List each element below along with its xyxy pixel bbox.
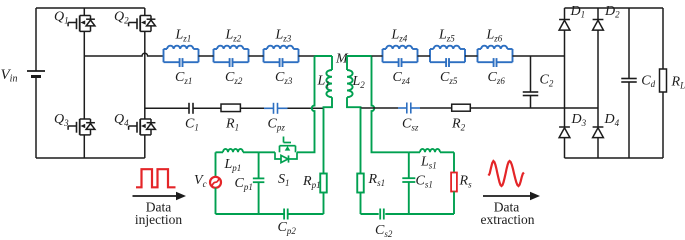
wire injection left vertical lower xyxy=(215,188,217,214)
label D3 xyxy=(571,112,587,128)
wire node C down to extraction with hop xyxy=(372,56,390,152)
wire inverter output A with hop over leg2 xyxy=(84,53,163,56)
label Cs1 xyxy=(416,174,433,190)
voltage source Vin (battery) xyxy=(27,8,45,158)
label Vc xyxy=(194,173,207,189)
diode D1 xyxy=(559,20,570,31)
label Cz5 xyxy=(440,70,458,86)
wire between tank1 tank2 xyxy=(199,55,214,57)
label R2 xyxy=(451,117,466,133)
wire between tank2 tank3 xyxy=(249,55,264,57)
transistor Q1 xyxy=(68,16,95,32)
wire injection bottom left xyxy=(216,213,285,215)
label Cz3 xyxy=(275,70,293,86)
capacitor Csz xyxy=(407,103,411,114)
label D2 xyxy=(604,4,620,20)
label Cpz xyxy=(268,117,286,133)
wire node C to tank4 xyxy=(372,55,383,57)
wire leg1 upper xyxy=(83,8,85,16)
wire leg2 upper xyxy=(144,8,146,16)
inductor Lp1 xyxy=(223,149,243,152)
capacitor Cpz xyxy=(274,103,278,114)
label C2 xyxy=(540,73,554,89)
label Lz6 xyxy=(486,27,503,43)
arrow data injection xyxy=(133,192,187,200)
wire rect leg1 upper xyxy=(564,8,566,20)
label C1 xyxy=(185,117,199,133)
LC tank L_z3 C_z3 xyxy=(264,46,299,67)
label Q3 xyxy=(54,112,69,128)
label Lz5 xyxy=(438,27,455,43)
label R1 xyxy=(225,117,239,133)
label Lz2 xyxy=(225,27,242,43)
label Lp1 xyxy=(224,157,242,173)
label Rp1 xyxy=(302,174,321,190)
wire extraction bottom right xyxy=(385,213,454,215)
svg-text:extraction: extraction xyxy=(481,212,535,227)
LC tank L_z6 C_z6 xyxy=(478,46,513,67)
label Q4 xyxy=(114,112,129,128)
label M xyxy=(335,52,349,67)
label Lz3 xyxy=(275,27,292,43)
wire injection top left xyxy=(216,151,224,153)
label RL xyxy=(671,75,685,91)
LC tank L_z2 C_z2 xyxy=(214,46,249,67)
wire leg2 to C1 xyxy=(145,107,189,109)
label Ls1 xyxy=(420,155,437,171)
wire blue lead right of Csz xyxy=(411,107,420,109)
wire between tank5 tank6 xyxy=(465,55,478,57)
wire injection left vertical upper xyxy=(215,152,217,177)
resistor R1 xyxy=(221,104,240,112)
wire Cp1 node to S1 xyxy=(259,151,275,153)
transistor Q4 xyxy=(129,119,156,135)
wire leg1 middle xyxy=(83,31,85,119)
wire Rp1 lower lead xyxy=(323,193,325,215)
source Vc xyxy=(210,177,221,188)
wire between tank4 tank5 xyxy=(418,55,431,57)
label S1 xyxy=(278,172,290,188)
label Lz4 xyxy=(391,27,408,43)
resistor Rs xyxy=(451,173,457,192)
wire rect leg1 lower xyxy=(564,138,566,158)
label Cd xyxy=(641,73,655,89)
wire rect leg2 upper xyxy=(597,8,599,20)
svg-text:injection: injection xyxy=(135,212,182,227)
wire leg2 middle xyxy=(144,31,146,119)
label Rs xyxy=(459,174,473,190)
text Data (injection) xyxy=(146,200,171,215)
label Lz1 xyxy=(175,27,192,43)
wire blue lead left of Cpz xyxy=(264,107,274,109)
inductor L2 xyxy=(347,56,353,102)
capacitor Cp1 xyxy=(253,152,265,214)
wire top rail left xyxy=(36,7,145,9)
label L2 xyxy=(352,74,366,90)
wire top rail right xyxy=(565,7,664,9)
capacitor Cs1 xyxy=(402,152,415,214)
label Rs1 xyxy=(368,172,386,188)
LC tank L_z4 C_z4 xyxy=(383,46,418,67)
wire Rs lower lead xyxy=(453,192,455,215)
transistor Q2 xyxy=(129,16,156,32)
wire L1 bottom to node B xyxy=(324,102,333,108)
label D4 xyxy=(604,112,620,128)
resistor R2 xyxy=(452,104,471,111)
diode D4 xyxy=(593,127,604,138)
diode D2 xyxy=(593,20,604,31)
inductor Ls1 xyxy=(420,149,440,152)
wire Cs1 node to Ls1 xyxy=(409,151,420,153)
wire R2 to rectifier leg2 xyxy=(470,107,598,109)
label Cp1 xyxy=(235,176,253,192)
wire bottom rail left xyxy=(36,157,145,159)
resistor Rp1 xyxy=(320,174,327,193)
wire tank6 to C2 node xyxy=(513,55,565,57)
wire Ls1 to Rs xyxy=(440,152,454,172)
label Cz4 xyxy=(393,70,411,86)
label Cz2 xyxy=(225,70,243,86)
arrow data extraction xyxy=(483,192,540,200)
label Csz xyxy=(402,117,419,133)
label L1 xyxy=(317,74,330,90)
wire leg1 lower xyxy=(83,135,85,158)
wire L2 bottom to node D xyxy=(347,102,361,108)
resistor RL xyxy=(660,8,667,158)
LC tank L_z1 C_z1 xyxy=(164,46,199,67)
capacitor C2 xyxy=(523,56,539,108)
LC tank L_z5 C_z5 xyxy=(430,46,465,67)
waveform square wave (data injection) xyxy=(136,169,176,187)
inductor L1 xyxy=(326,56,332,102)
label Cs2 xyxy=(375,223,393,239)
text Data (extraction) xyxy=(494,200,519,215)
transistor S1 xyxy=(275,137,297,163)
diode D3 xyxy=(559,127,570,138)
wire Lp1 to Cp1 node xyxy=(243,151,259,153)
wire node A down to S1 with hop xyxy=(297,56,315,152)
wire extraction top left xyxy=(389,151,409,153)
text injection xyxy=(135,212,182,227)
wire leg2 lower xyxy=(144,135,146,158)
transistor Q3 xyxy=(68,119,95,135)
label Cz1 xyxy=(175,70,192,86)
wire Rs1 lower lead xyxy=(360,193,362,215)
wire node D to Csz xyxy=(361,107,399,109)
resistor Rs1 xyxy=(357,174,364,193)
waveform sine wave (data extraction) xyxy=(489,161,524,186)
label Vin xyxy=(1,67,18,85)
capacitor Cd xyxy=(621,8,637,158)
wire rect leg1 middle xyxy=(564,30,566,127)
wire L2 top to node C xyxy=(347,55,372,57)
wire Csz to R2 xyxy=(420,107,452,109)
label Cp2 xyxy=(278,220,297,236)
label Q1 xyxy=(54,9,69,25)
label Q2 xyxy=(114,9,129,25)
wire Rp1 upper lead xyxy=(323,108,325,173)
label D1 xyxy=(570,4,586,20)
wire extraction bottom left xyxy=(361,213,379,215)
label Cz6 xyxy=(488,70,506,86)
wire blue lead left of Csz xyxy=(398,107,407,109)
wire rect leg2 middle xyxy=(597,30,599,127)
wire tank3 to node A xyxy=(299,55,315,57)
wire Cpz to node B xyxy=(288,107,324,109)
wire R1 to Cpz xyxy=(240,107,264,109)
wire bottom rail right xyxy=(565,157,664,159)
capacitor Cp2 xyxy=(284,209,288,220)
wire injection bottom right xyxy=(288,213,324,215)
wire Rs1 upper lead xyxy=(360,108,362,174)
text extraction xyxy=(481,212,535,227)
wire blue lead right of Cpz xyxy=(278,107,288,109)
wire node A to L1 top xyxy=(315,55,333,57)
capacitor Cs2 xyxy=(380,209,384,220)
capacitor C1 xyxy=(189,103,193,114)
wire C1 to R1 xyxy=(193,107,221,109)
wire rect leg2 lower xyxy=(597,138,599,158)
